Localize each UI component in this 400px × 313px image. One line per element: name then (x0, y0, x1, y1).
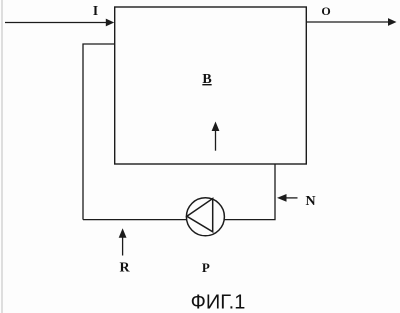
arrow inside B (212, 122, 220, 151)
wire feedback bottom left (83, 219, 187, 221)
svg-text:R: R (119, 261, 130, 276)
svg-text:ФИГ.1: ФИГ.1 (191, 292, 246, 313)
arrow N (277, 194, 298, 202)
wire feedback bottom right (224, 164, 275, 220)
arrow R (119, 228, 127, 255)
svg-text:O: O (321, 4, 330, 18)
svg-text:N: N (305, 194, 315, 209)
wire feedback left vertical (83, 44, 115, 220)
pump P (186, 198, 224, 236)
svg-text:I: I (93, 3, 98, 18)
svg-text:P: P (202, 260, 210, 275)
block B (115, 7, 307, 164)
wire input I (5, 19, 114, 27)
svg-text:B: B (202, 72, 211, 87)
wire output O (306, 18, 396, 26)
